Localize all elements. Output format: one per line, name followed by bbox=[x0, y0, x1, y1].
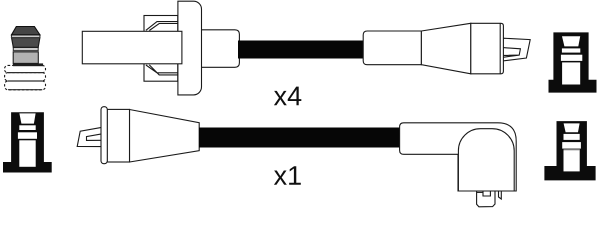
connector side key bbox=[499, 191, 502, 199]
spark plug boot cylinder (top right) bbox=[363, 31, 421, 65]
x1 label bbox=[274, 166, 301, 185]
socket icon white trapezoid (bottom right) bbox=[564, 123, 580, 132]
housing clip top bbox=[146, 22, 178, 31]
housing clip bottom bbox=[146, 65, 178, 75]
spark plug icon ribs bbox=[5, 65, 46, 89]
spark plug icon dark collar bbox=[12, 38, 40, 48]
socket icon white column (bottom right) bbox=[564, 149, 580, 171]
socket icon white collar (bottom right) bbox=[562, 142, 581, 149]
blade terminal inner lines bbox=[503, 48, 520, 58]
boot cone (bottom cable left) bbox=[130, 110, 200, 163]
socket icon white band (top right) bbox=[562, 48, 580, 52]
distributor connector housing (top cable) bbox=[144, 16, 178, 82]
spark plug icon rib separator lines bbox=[8, 73, 43, 90]
blade terminal (top right) bbox=[503, 38, 530, 61]
spark plug icon lower light band bbox=[13, 47, 38, 50]
spark plug boot cone bbox=[421, 23, 470, 74]
distributor socket icon (top right) bbox=[549, 32, 597, 92]
flange disc (top cable) bbox=[178, 1, 202, 95]
socket icon white trapezoid (top right) bbox=[562, 36, 580, 46]
connector tab (bottom) bbox=[477, 191, 495, 207]
boot flange (bottom cable left) bbox=[101, 107, 107, 164]
blade terminal inner (bottom left) bbox=[87, 134, 102, 141]
socket icon white band (bottom left) bbox=[19, 125, 35, 130]
elbow boot outer (bottom right) bbox=[400, 123, 517, 191]
spark plug icon cap bbox=[12, 27, 40, 35]
spark plug icon shell flange bar bbox=[13, 63, 43, 66]
socket icon white collar (bottom left) bbox=[18, 132, 37, 139]
socket icon white collar (top right) bbox=[561, 55, 582, 61]
terminal rect (top cable left end) bbox=[82, 31, 182, 64]
connector tab lip bbox=[477, 191, 483, 193]
socket icon white column (top right) bbox=[562, 62, 580, 84]
socket icon (bottom right) bbox=[544, 121, 595, 180]
spark plug boot body bbox=[471, 23, 504, 74]
cylinder right of flange bbox=[200, 30, 239, 68]
ignition cable x1 bbox=[199, 128, 401, 148]
spark plug icon upper light band bbox=[12, 35, 40, 38]
connector tab notch bbox=[483, 191, 490, 196]
boot body (bottom cable left) bbox=[107, 109, 129, 162]
spark plug icon hex body bbox=[13, 52, 38, 64]
ignition cable x4 bbox=[238, 41, 364, 59]
elbow boot dome bbox=[458, 129, 514, 191]
socket icon white trapezoid (bottom left) bbox=[19, 113, 35, 123]
boot end cap line bbox=[499, 23, 501, 74]
socket icon white column (bottom left) bbox=[19, 140, 35, 167]
socket icon (bottom left) bbox=[3, 112, 52, 172]
socket icon white band (bottom right) bbox=[564, 134, 580, 140]
blade terminal (bottom cable left) bbox=[77, 127, 101, 146]
x4 label bbox=[274, 87, 301, 106]
